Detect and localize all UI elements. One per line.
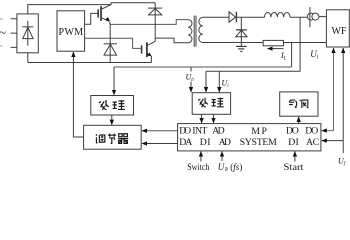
diode freewheel output bbox=[236, 17, 247, 42]
glyphs 调节器 bbox=[96, 134, 128, 144]
wire: rectifier bottom lead bbox=[27, 53, 29, 63]
wire: DC- bottom rail bbox=[28, 62, 152, 64]
svg-text:~: ~ bbox=[0, 25, 6, 40]
wire: Ub sense drop bbox=[291, 43, 293, 67]
rectifier box bbox=[17, 14, 38, 53]
wire: Ui line bbox=[206, 70, 300, 72]
transformer T1 bbox=[188, 16, 202, 47]
label Ua bbox=[218, 162, 243, 173]
svg-text:AD: AD bbox=[212, 126, 224, 137]
svg-text:SYSTEM: SYSTEM bbox=[240, 137, 277, 148]
wire: Q2 emitter to rail bbox=[150, 56, 152, 63]
transistor Q1 bbox=[98, 5, 111, 22]
glyphs 气阀 bbox=[289, 100, 308, 108]
wire: PWM gate drive 2 bbox=[85, 38, 141, 48]
WF box bbox=[326, 10, 349, 47]
wire: MP to gas valve bbox=[298, 117, 300, 124]
wire: Uf stub bbox=[342, 141, 344, 154]
wire: Q1 emitter node bbox=[109, 22, 111, 25]
svg-text:Start: Start bbox=[284, 163, 304, 172]
current arrow IL bbox=[268, 48, 284, 50]
MP SYSTEM box bbox=[178, 124, 321, 151]
label Ui bbox=[222, 79, 230, 90]
svg-text:DO: DO bbox=[305, 126, 318, 137]
resistor shunt bbox=[263, 40, 283, 45]
diode freewheel lower bbox=[104, 24, 117, 62]
wire: processing to MP 1 bbox=[201, 114, 203, 123]
wire: processing to MP 2 bbox=[213, 114, 215, 123]
current sensor bbox=[307, 7, 319, 27]
wire: PWM gate drive 1 bbox=[85, 13, 98, 24]
wire: into left processing bbox=[113, 67, 115, 95]
svg-text:MP: MP bbox=[251, 126, 267, 137]
svg-text:Switch: Switch bbox=[187, 163, 209, 172]
wire: long Ub feedback bbox=[114, 66, 292, 68]
ground bbox=[236, 43, 247, 52]
svg-text:(fs): (fs) bbox=[230, 162, 242, 172]
glyphs 处理 bbox=[99, 100, 125, 110]
wire: regulator feedback to PWM bbox=[73, 52, 83, 137]
diode freewheel upper bbox=[148, 3, 162, 42]
diode output rectifier bbox=[229, 12, 236, 23]
wire: inductor to sensor bbox=[290, 16, 307, 18]
PWM U2 bbox=[57, 11, 85, 51]
svg-text:AD: AD bbox=[219, 137, 231, 148]
wire: start input bbox=[294, 152, 296, 162]
wire: Ua input bbox=[221, 152, 223, 162]
wire: to inductor bbox=[236, 16, 264, 18]
rectifier diode symbol bbox=[22, 21, 33, 46]
wire: secondary top lead bbox=[203, 16, 229, 18]
wire: resistor to WF bbox=[284, 42, 327, 44]
label Ub bbox=[185, 72, 196, 84]
inductor L1 bbox=[265, 12, 291, 17]
wire: sensor to WF bbox=[319, 16, 327, 18]
regulator box bbox=[84, 125, 142, 149]
svg-text:DA: DA bbox=[179, 137, 192, 148]
three-phase input stubs bbox=[11, 19, 17, 48]
svg-text:PWM: PWM bbox=[59, 27, 84, 38]
svg-text:DI: DI bbox=[200, 137, 211, 148]
wire: MP to regulator 2 bbox=[142, 143, 178, 145]
wire: DC+ top rail bbox=[28, 3, 155, 14]
transistor Q2 bbox=[142, 41, 156, 57]
wire: Ui sense drop bbox=[299, 17, 301, 71]
wire: switch input bbox=[200, 152, 202, 162]
svg-text:INT: INT bbox=[192, 126, 207, 137]
wire: Ui drop bbox=[218, 71, 220, 92]
svg-text:Uf: Uf bbox=[338, 157, 346, 168]
input edge ticks bbox=[0, 19, 3, 46]
svg-text:AC: AC bbox=[306, 137, 319, 148]
svg-text:WF: WF bbox=[332, 26, 347, 37]
wire: secondary bottom rail bbox=[203, 42, 264, 44]
svg-text:DI: DI bbox=[288, 137, 299, 148]
wire: primary bottom bbox=[155, 38, 188, 43]
wire: MP to regulator 1 bbox=[142, 130, 178, 132]
wire: processing to regulator bbox=[111, 115, 113, 125]
processing box left bbox=[91, 96, 134, 116]
svg-text:Ui: Ui bbox=[310, 49, 319, 61]
processing box right bbox=[192, 93, 230, 115]
wire: emitter to primary top bbox=[110, 20, 188, 25]
gas valve box bbox=[280, 92, 318, 116]
svg-text:a: a bbox=[225, 165, 229, 173]
svg-text:DO: DO bbox=[286, 126, 299, 137]
wire: Ub drop to processing bbox=[190, 67, 192, 92]
wire: drop into processing bbox=[205, 71, 207, 92]
svg-text:Ui: Ui bbox=[222, 79, 230, 90]
svg-text:IL: IL bbox=[280, 51, 287, 62]
glyphs 处理 bbox=[198, 98, 224, 108]
svg-text:DO: DO bbox=[179, 126, 191, 137]
wire: WF sense 2 bbox=[342, 48, 344, 141]
wire: WF sense 1 bbox=[333, 48, 335, 131]
